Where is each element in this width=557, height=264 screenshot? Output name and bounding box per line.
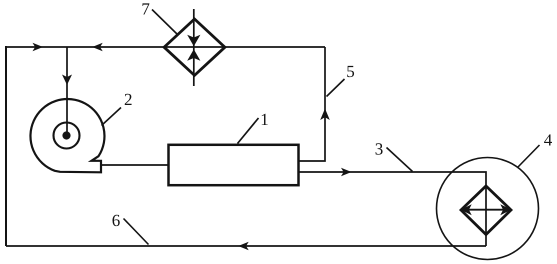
leader line for label 5 <box>327 79 345 97</box>
leader line for label 2 <box>102 108 122 126</box>
unit 4 double arrow shaft <box>466 209 506 211</box>
heat exchanger 1 rectangle <box>169 145 299 185</box>
wire top pipe <box>6 46 325 48</box>
unit 4 arrow left head <box>461 204 472 215</box>
valve 7 down arrowhead <box>187 35 200 47</box>
arrow left on pipe 6 <box>238 242 249 250</box>
pump 2 hub dot <box>62 131 70 139</box>
valve 7 up arrowhead <box>187 49 200 61</box>
pump 2 volute body <box>30 99 104 172</box>
arrow right on pipe 3 <box>341 168 352 176</box>
unit 4 diamond <box>461 186 511 235</box>
svg-text:1: 1 <box>260 110 269 129</box>
arrow up on line 5 <box>320 109 330 121</box>
leader line for label 7 <box>152 10 178 35</box>
valve 7 diamond <box>164 19 225 75</box>
wire line 5 (rect to top pipe) <box>299 47 325 161</box>
arrow right on top pipe <box>33 43 44 51</box>
leader line for label 1 <box>238 118 259 144</box>
wire left vertical <box>5 46 7 246</box>
leader line for label 3 <box>387 148 413 172</box>
svg-text:3: 3 <box>375 140 384 159</box>
svg-text:2: 2 <box>124 90 133 109</box>
leader line for label 4 <box>518 145 540 168</box>
arrow left on top pipe <box>92 43 103 51</box>
unit 4 arrow right head <box>500 204 511 215</box>
svg-text:4: 4 <box>544 130 553 149</box>
valve 7 vertical stem <box>193 9 195 86</box>
leader line for label 6 <box>124 219 149 245</box>
wire pipe 3 (rect to unit 4) <box>299 172 486 246</box>
svg-text:5: 5 <box>346 62 355 81</box>
unit 4 circle <box>437 158 539 260</box>
pump 2 inner circle <box>54 123 80 149</box>
wire bottom pipe net 6 <box>6 245 486 247</box>
arrow down on pump branch <box>62 75 72 86</box>
svg-text:6: 6 <box>112 211 121 230</box>
wire branch down to pump <box>66 47 68 134</box>
wire pump outlet to heat exchanger <box>101 164 168 166</box>
svg-text:7: 7 <box>141 0 150 18</box>
